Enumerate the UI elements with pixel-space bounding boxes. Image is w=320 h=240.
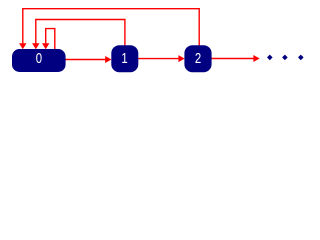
ellipsis dot 1 <box>267 55 273 61</box>
self-loop wire on node 0 <box>46 29 55 49</box>
arrowhead into node 0 (from node 1) <box>32 43 39 49</box>
svg-text:2: 2 <box>195 50 201 67</box>
svg-text:0: 0 <box>36 50 42 67</box>
arrowhead into node 0 (from node 2) <box>19 43 26 49</box>
node 2 <box>184 45 211 72</box>
ellipsis dot 2 <box>282 55 288 61</box>
wire node 0 to node 1 <box>65 59 106 61</box>
wire node 2 to ellipsis <box>211 58 254 60</box>
svg-text:1: 1 <box>121 50 127 67</box>
arrowhead into node 1 <box>105 56 111 63</box>
wire node 1 to node 2 <box>138 58 179 60</box>
node 0 <box>12 49 66 72</box>
wire loop from node 1 back to node 0 <box>36 20 125 46</box>
ellipsis dot 3 <box>298 55 304 61</box>
arrowhead into node 2 <box>178 55 184 62</box>
arrowhead into node 0 (self-loop) <box>42 43 49 49</box>
arrowhead toward ellipsis <box>253 55 259 62</box>
node 1 <box>111 45 138 72</box>
wire loop from node 2 back to node 0 <box>23 9 199 46</box>
